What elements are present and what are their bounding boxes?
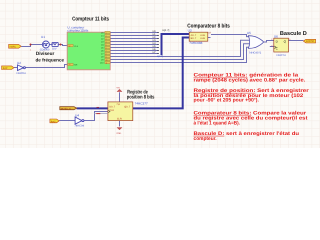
svg-text:RAZ: RAZ	[51, 120, 56, 123]
svg-text:MR: MR	[74, 63, 78, 66]
svg-text:74HC04: 74HC04	[16, 72, 26, 75]
svg-text:U1: U1	[41, 35, 45, 39]
svg-text:position 8 bits: position 8 bits	[127, 94, 155, 100]
svg-text:de fréquence: de fréquence	[36, 57, 65, 62]
svg-text:Compteur 11 bits: Compteur 11 bits	[72, 16, 109, 23]
svg-text:à l'état 1 quand A=B).: à l'état 1 quand A=B).	[194, 120, 241, 126]
svg-text:B0..7: B0..7	[191, 37, 197, 40]
svg-text:74HC4072: 74HC4072	[249, 52, 262, 55]
svg-text:+5V: +5V	[116, 86, 120, 89]
svg-text:U4: U4	[75, 113, 79, 117]
svg-text:pour -90° et 205 pour +90°).: pour -90° et 205 pour +90°).	[194, 98, 260, 104]
svg-text:B[0..7]: B[0..7]	[157, 55, 163, 58]
svg-text:Bascule D: Bascule D	[280, 30, 307, 37]
svg-text:U2: U2	[17, 61, 21, 65]
svg-text:H[0..7]: H[0..7]	[163, 29, 170, 32]
svg-text:compteur.: compteur.	[194, 136, 218, 142]
svg-text:GND: GND	[116, 132, 121, 135]
svg-text:SORTIE: SORTIE	[306, 40, 315, 43]
svg-text:Diviseur: Diviseur	[36, 51, 55, 56]
svg-text:74HC04: 74HC04	[74, 125, 84, 128]
svg-text:rampe (2048 cycles) avec 0.88°: rampe (2048 cycles) avec 0.88° par cycle…	[194, 78, 306, 84]
svg-text:MOT[0..7]: MOT[0..7]	[61, 107, 71, 110]
svg-text:compteur11bits: compteur11bits	[67, 29, 88, 33]
svg-text:Q0..7: Q0..7	[124, 106, 131, 109]
svg-text:CLK: CLK	[74, 45, 79, 48]
svg-text:DIV: DIV	[52, 47, 57, 50]
svg-text:A<B: A<B	[200, 37, 205, 40]
svg-text:74HC377: 74HC377	[135, 101, 148, 105]
svg-text:74HC74: 74HC74	[276, 54, 286, 57]
svg-text:U5: U5	[247, 31, 251, 35]
svg-text:RAZ: RAZ	[3, 67, 8, 70]
svg-text:CLR: CLR	[117, 118, 122, 121]
svg-text:74HC688: 74HC688	[189, 41, 202, 45]
svg-text:HORL: HORL	[10, 46, 17, 49]
svg-text:Comparateur 8 bits: Comparateur 8 bits	[187, 23, 230, 30]
